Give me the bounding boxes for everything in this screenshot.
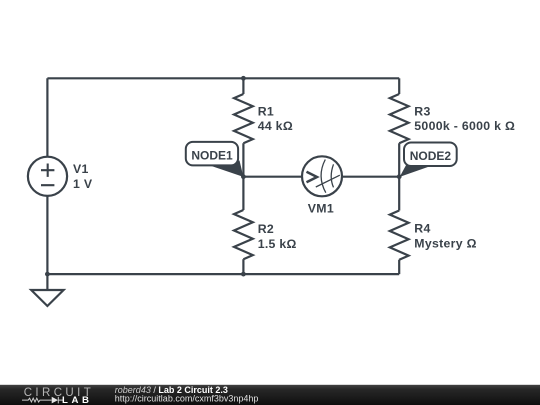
- wire middle row right of VM1: [342, 176, 399, 178]
- svg-text:NODE2: NODE2: [410, 149, 452, 163]
- svg-text:R1: R1: [258, 105, 274, 119]
- node junction dot NODE1: [241, 174, 246, 179]
- wire right branch between R3 and R4: [398, 143, 400, 210]
- resistor R4: [390, 211, 409, 260]
- wire left vertical lower: [46, 196, 48, 274]
- footer bar: [0, 385, 540, 405]
- wire middle branch between R1 and R2: [242, 143, 244, 210]
- wire top horizontal: [47, 77, 399, 79]
- svg-text:1.5 kΩ: 1.5 kΩ: [258, 237, 297, 251]
- node junction dot top of R1 branch: [241, 76, 246, 81]
- svg-text:R4: R4: [414, 222, 430, 236]
- svg-text:NODE1: NODE1: [191, 149, 233, 163]
- footer logo wire with resistor and diode: [22, 397, 64, 404]
- wire bottom horizontal: [47, 273, 399, 275]
- wire right branch top stub: [398, 78, 400, 94]
- wire middle branch top stub: [242, 78, 244, 94]
- wire middle row left of VM1: [243, 176, 302, 178]
- node NODE2 flag: [400, 143, 457, 177]
- node junction dot NODE2: [397, 174, 402, 179]
- svg-text:http://circuitlab.com/cxmf3bv3: http://circuitlab.com/cxmf3bv3np4hp: [115, 394, 259, 404]
- voltmeter VM1: [302, 156, 342, 196]
- node junction dot ground: [45, 272, 50, 277]
- svg-text:R3: R3: [414, 105, 430, 119]
- resistor R1: [234, 94, 253, 143]
- svg-text:5000k - 6000 k Ω: 5000k - 6000 k Ω: [414, 119, 515, 133]
- wire left vertical upper: [46, 78, 48, 156]
- svg-text:R2: R2: [258, 222, 274, 236]
- voltage source V1: [28, 157, 67, 196]
- node NODE1 flag: [186, 142, 244, 177]
- resistor R2: [234, 210, 253, 259]
- ground: [31, 274, 63, 306]
- svg-text:V1: V1: [73, 162, 89, 176]
- wire middle branch bottom stub: [242, 259, 244, 274]
- svg-text:44 kΩ: 44 kΩ: [258, 119, 293, 133]
- svg-text:1 V: 1 V: [73, 177, 93, 191]
- svg-text:Mystery Ω: Mystery Ω: [414, 237, 476, 251]
- wire right branch bottom stub: [398, 260, 400, 274]
- svg-text:LAB: LAB: [62, 395, 93, 405]
- resistor R3: [390, 94, 409, 143]
- node junction dot bottom of R2 branch: [241, 272, 246, 277]
- svg-text:VM1: VM1: [308, 201, 334, 215]
